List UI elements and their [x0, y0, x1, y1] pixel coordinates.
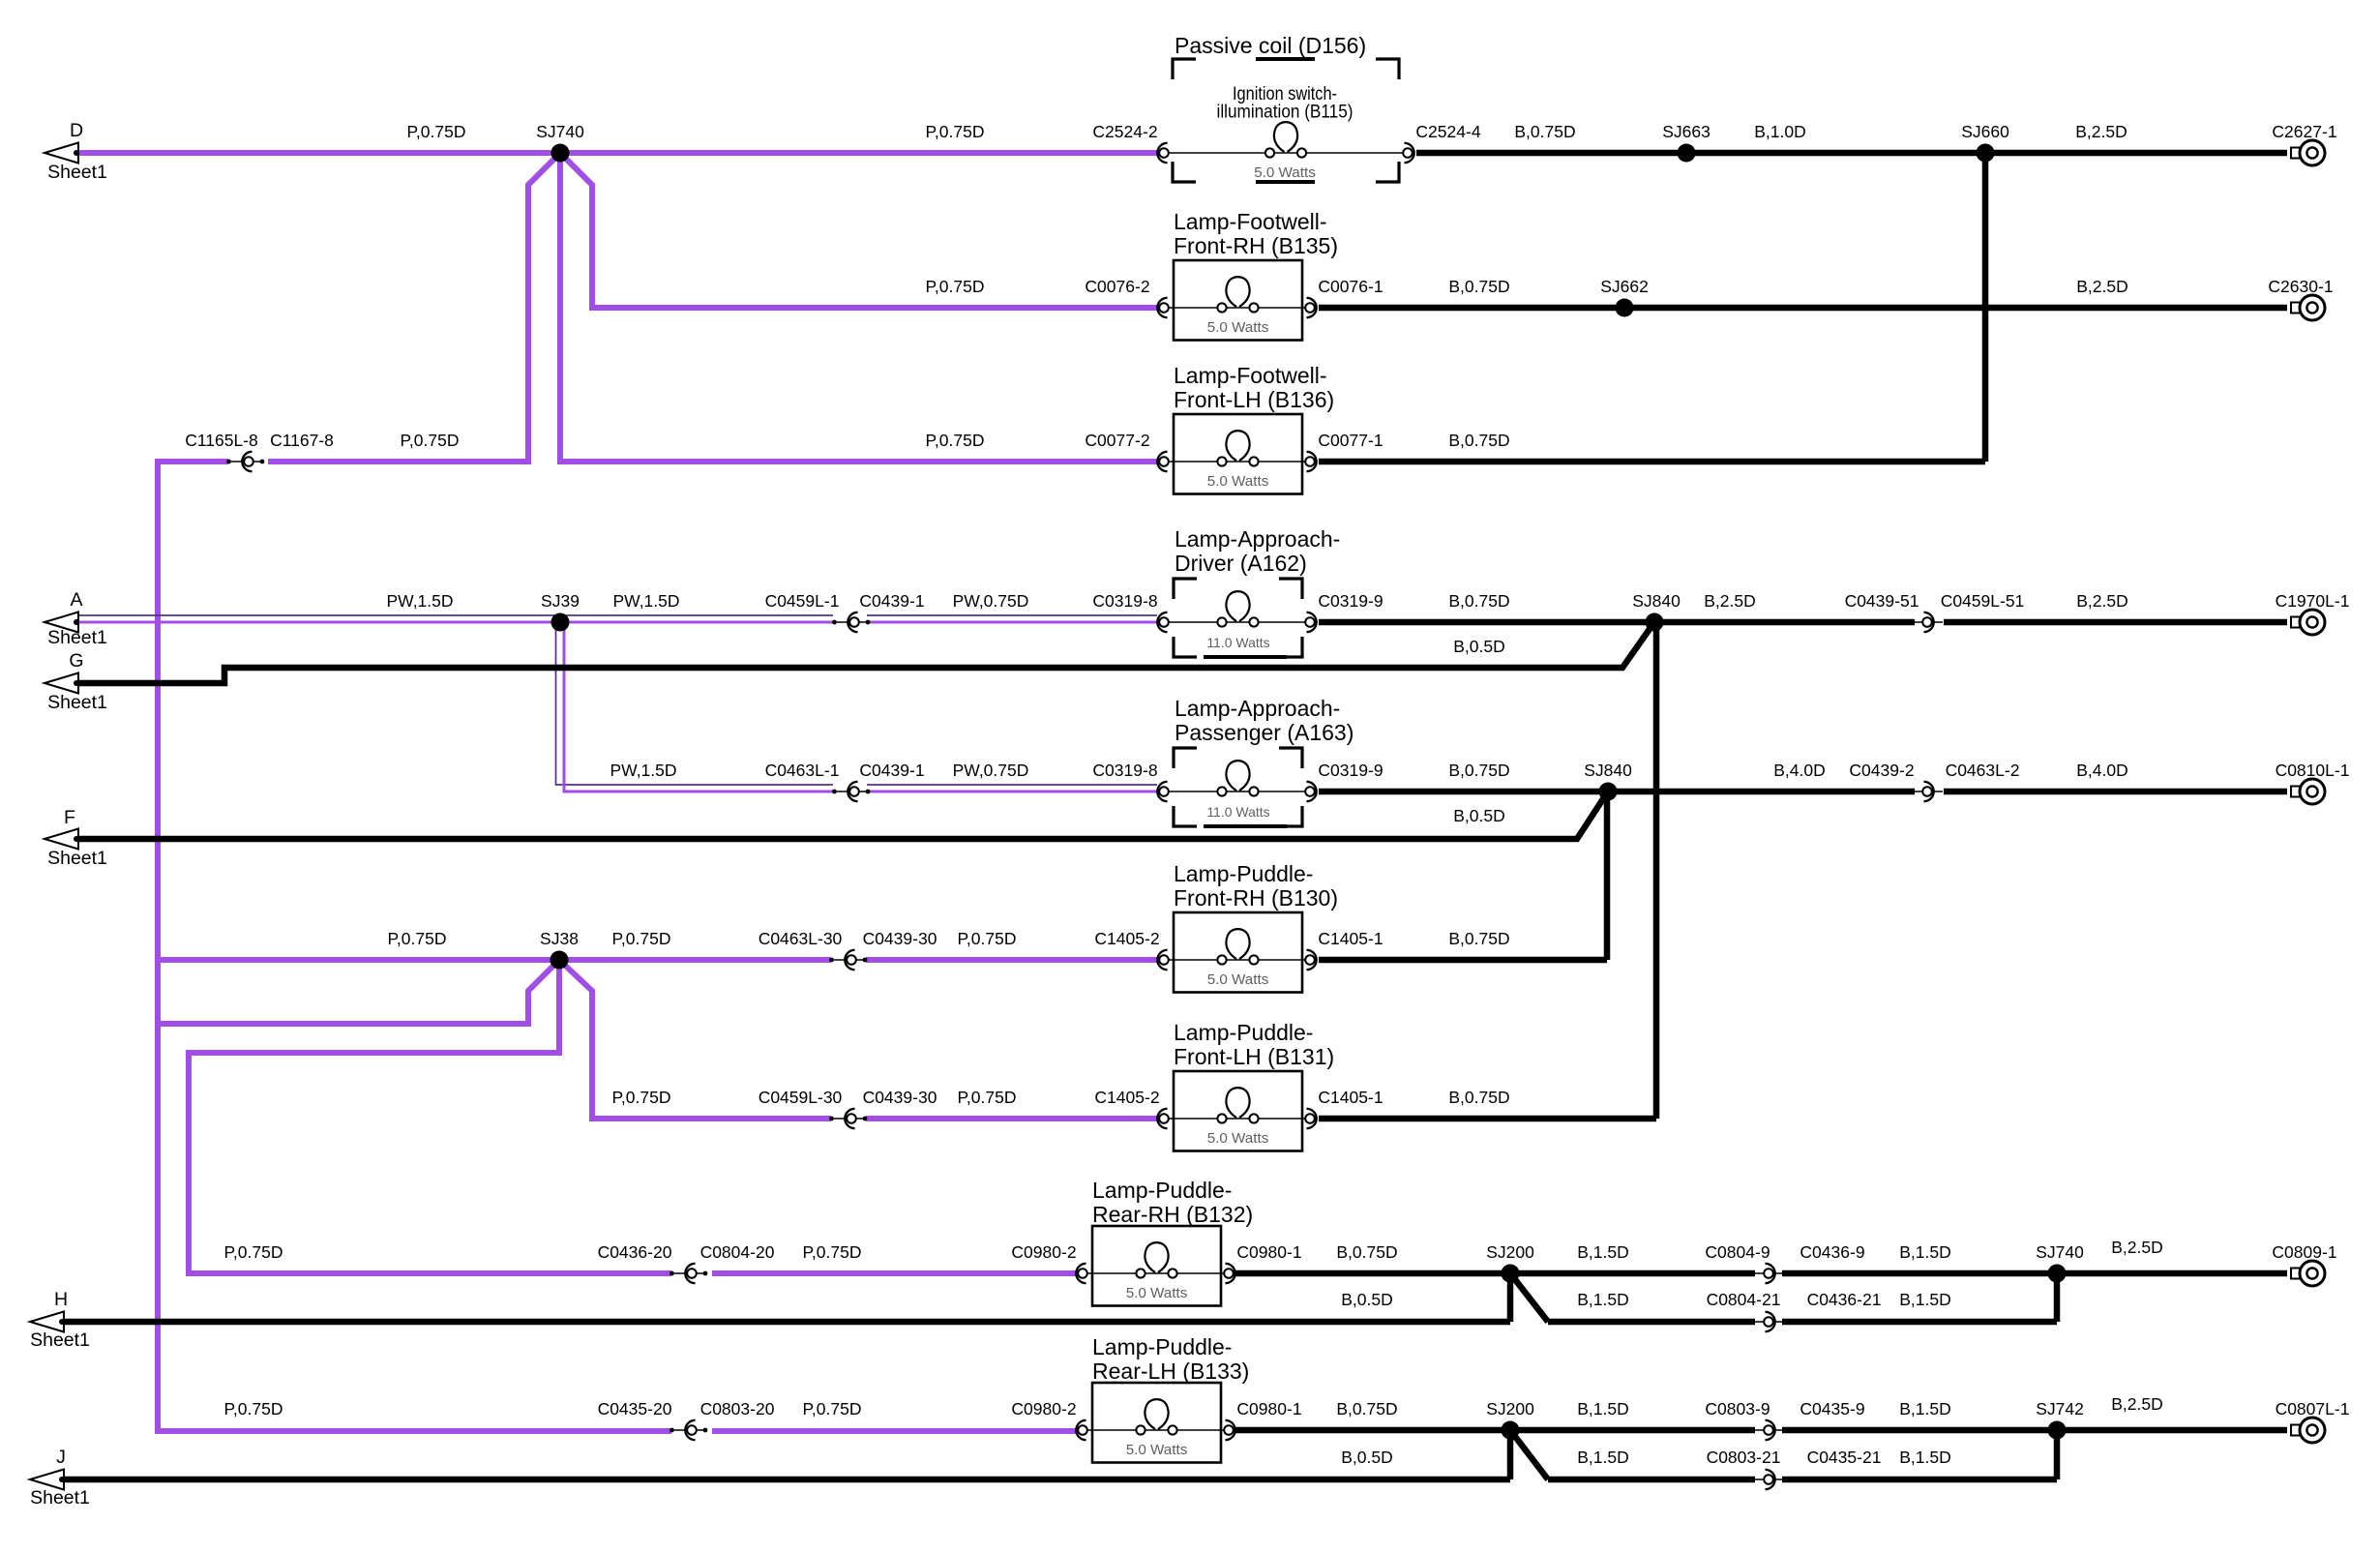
connector C0435-20 C0803-20 inline row9: [669, 1428, 674, 1433]
lamp element bulb Rear-LH (B133): [1083, 1429, 1231, 1431]
svg-text:SJ660: SJ660: [1961, 122, 2009, 141]
connector C0463L-30 C0439-30 inline row6: [829, 958, 834, 963]
connector C0436-20 C0804-20 inline row8: [669, 1271, 674, 1276]
svg-text:B,1.5D: B,1.5D: [1899, 1290, 1951, 1309]
svg-text:C2630-1: C2630-1: [2268, 277, 2333, 296]
wire row6 P,0.75D right of connector C0439-30: [866, 957, 1158, 963]
svg-text:B,2.5D: B,2.5D: [2076, 591, 2128, 611]
svg-text:C0803-9: C0803-9: [1705, 1399, 1770, 1419]
wire SJ660 vertical down to row3: [1982, 153, 1989, 462]
junction SJ660 row1: [1977, 144, 1995, 163]
connector C0804-21 C0436-21 inline row8 lower black: [1754, 1321, 1784, 1323]
svg-text:PW,0.75D: PW,0.75D: [953, 761, 1029, 780]
svg-text:H: H: [54, 1289, 68, 1310]
svg-text:C0435-21: C0435-21: [1807, 1448, 1882, 1467]
svg-text:C0459L-30: C0459L-30: [759, 1088, 843, 1107]
svg-text:P,0.75D: P,0.75D: [407, 122, 466, 141]
junction SJ39 row4: [551, 613, 570, 632]
svg-text:P,0.75D: P,0.75D: [224, 1242, 283, 1262]
svg-text:C0807L-1: C0807L-1: [2276, 1399, 2350, 1419]
ring terminal C0809-1: [2291, 1269, 2300, 1279]
svg-text:C1165L-8: C1165L-8: [185, 431, 258, 450]
wire SJ38 middle branch to row8 lamp B132: [189, 960, 671, 1273]
wire row5 B,0.75D B,4.0D from C0319-9 to connector C0439-2: [1319, 789, 1915, 795]
svg-text:5.0 Watts: 5.0 Watts: [1207, 1130, 1269, 1147]
svg-text:Rear-RH (B132): Rear-RH (B132): [1092, 1202, 1253, 1227]
svg-text:Lamp-Puddle-: Lamp-Puddle-: [1092, 1334, 1232, 1359]
wire row4 B,0.75D B,2.5D from C0319-9 to connector C0439-51: [1319, 619, 1915, 626]
component Passive coil (D156) bracket box: [1173, 59, 1196, 79]
svg-text:B,1.5D: B,1.5D: [1577, 1399, 1629, 1419]
svg-text:C2524-2: C2524-2: [1092, 122, 1157, 141]
connector C0804-9 C0436-9 inline row8 black: [1754, 1272, 1784, 1274]
svg-text:F: F: [64, 807, 75, 828]
junction SJ662 row2: [1616, 299, 1634, 317]
svg-text:C0810L-1: C0810L-1: [2276, 761, 2350, 780]
wire row7 B,0.75D from C1405-1 to SJ840 vertical: [1319, 1116, 1656, 1122]
svg-text:Front-RH (B135): Front-RH (B135): [1174, 233, 1338, 258]
svg-text:C0436-9: C0436-9: [1800, 1242, 1864, 1262]
svg-text:Sheet1: Sheet1: [47, 848, 107, 869]
svg-text:P,0.75D: P,0.75D: [612, 929, 671, 948]
svg-text:Lamp-Footwell-: Lamp-Footwell-: [1174, 363, 1327, 388]
svg-text:P,0.75D: P,0.75D: [926, 277, 985, 296]
svg-text:illumination (B115): illumination (B115): [1217, 103, 1354, 123]
svg-text:B,1.5D: B,1.5D: [1899, 1448, 1951, 1467]
svg-text:B,1.0D: B,1.0D: [1754, 122, 1806, 141]
svg-text:B,2.5D: B,2.5D: [2111, 1394, 2163, 1414]
connector C0459L-30 C0439-30 inline row7: [829, 1117, 834, 1121]
svg-text:B,0.75D: B,0.75D: [1448, 277, 1509, 296]
connector C0803-21 C0435-21 inline row9 lower black: [1754, 1478, 1784, 1480]
svg-text:Sheet1: Sheet1: [30, 1487, 90, 1508]
svg-text:C0435-20: C0435-20: [598, 1399, 672, 1419]
svg-text:B,4.0D: B,4.0D: [2076, 761, 2128, 780]
ring terminal C0810L-1: [2291, 787, 2300, 797]
svg-text:B,0.75D: B,0.75D: [1448, 591, 1509, 611]
svg-text:C1405-2: C1405-2: [1094, 1088, 1159, 1107]
connector C2524-2 lamp left edge: [1157, 143, 1167, 163]
connector C0319-8 lamp left edge: [1157, 612, 1167, 632]
svg-text:Lamp-Puddle-: Lamp-Puddle-: [1174, 861, 1313, 886]
wire H B,0.5D from sheet arrow to SJ200 vertical: [62, 1319, 1510, 1326]
connector C0980-1 lamp right edge: [1224, 1425, 1234, 1435]
lamp element bulb approach lamp: [1169, 791, 1305, 792]
svg-text:SJ740: SJ740: [2036, 1242, 2084, 1262]
svg-text:B,0.5D: B,0.5D: [1341, 1448, 1393, 1467]
connector C1405-2 lamp left edge: [1157, 1109, 1167, 1128]
connector C0980-2 lamp left edge: [1076, 1264, 1086, 1283]
svg-text:B,0.75D: B,0.75D: [1448, 929, 1509, 948]
svg-text:5.0 Watts: 5.0 Watts: [1126, 1442, 1188, 1458]
svg-text:SJ38: SJ38: [540, 929, 579, 948]
wire G B,0.5D from sheet arrow to SJ840: [78, 622, 1654, 683]
svg-text:C0439-30: C0439-30: [863, 929, 937, 948]
component Rear-RH (B132) box: [1092, 1226, 1221, 1306]
connector C1165L-8 C1167-8 inline row3: [226, 460, 231, 464]
svg-text:Lamp-Puddle-: Lamp-Puddle-: [1174, 1020, 1313, 1045]
component Rear-LH (B133) box: [1092, 1383, 1221, 1463]
svg-text:PW,1.5D: PW,1.5D: [610, 761, 676, 780]
svg-text:C0804-9: C0804-9: [1705, 1242, 1770, 1262]
sheet reference G Sheet1: [45, 673, 78, 694]
wire row9 B,1.5D B,2.5D from connector C0435-9 to ring C0807L-1: [1782, 1427, 2287, 1434]
svg-text:C1970L-1: C1970L-1: [2276, 591, 2350, 611]
connector C1405-1 lamp right edge: [1305, 1114, 1315, 1123]
wire SJ200 diagonal to lower B,1.5D run: [1510, 1273, 1548, 1322]
svg-text:Passenger (A163): Passenger (A163): [1175, 720, 1354, 745]
svg-text:C0439-1: C0439-1: [859, 591, 924, 611]
junction SJ840 row4: [1646, 613, 1664, 632]
junction SJ663 row1: [1678, 144, 1696, 163]
component Front-LH (B131) box: [1174, 1071, 1302, 1151]
svg-text:B,0.75D: B,0.75D: [1448, 1088, 1509, 1107]
svg-text:SJ662: SJ662: [1600, 277, 1649, 296]
component approach lamp bracket box: [1174, 748, 1197, 768]
junction SJ740 row1: [551, 144, 570, 163]
svg-text:Front-RH (B130): Front-RH (B130): [1174, 885, 1338, 911]
wire row8 lower B,1.5D to connector C0804-21: [1548, 1319, 1755, 1326]
svg-text:P,0.75D: P,0.75D: [612, 1088, 671, 1107]
wire row4 B,2.5D from connector C0459L-51 to ring C1970L-1: [1944, 619, 2287, 626]
svg-text:P,0.75D: P,0.75D: [401, 431, 460, 450]
svg-text:C0077-1: C0077-1: [1318, 431, 1383, 450]
svg-text:PW,1.5D: PW,1.5D: [612, 591, 679, 611]
lamp element bulb Front-RH (B130): [1164, 959, 1312, 961]
svg-text:SJ742: SJ742: [2036, 1399, 2084, 1419]
svg-text:P,0.75D: P,0.75D: [803, 1242, 862, 1262]
svg-text:PW,1.5D: PW,1.5D: [386, 591, 453, 611]
junction SJ840 row5: [1599, 783, 1618, 801]
svg-text:C1167-8: C1167-8: [270, 431, 334, 450]
connector C0077-1 lamp right edge: [1305, 457, 1315, 466]
wire SJ200 vertical to wire J: [1507, 1430, 1514, 1479]
svg-text:B,0.5D: B,0.5D: [1453, 806, 1505, 825]
svg-text:J: J: [56, 1447, 66, 1468]
wire row9 P,0.75D right of connector C0803-20: [712, 1428, 1077, 1434]
connector C1405-1 lamp right edge: [1305, 955, 1315, 965]
connector C0439-51 C0459L-51 inline row4 black: [1913, 621, 1943, 623]
svg-text:P,0.75D: P,0.75D: [388, 929, 447, 948]
svg-text:P,0.75D: P,0.75D: [958, 1088, 1017, 1107]
svg-text:C0463L-2: C0463L-2: [1946, 761, 2020, 780]
ring terminal C1970L-1: [2291, 617, 2300, 628]
svg-text:B,1.5D: B,1.5D: [1899, 1399, 1951, 1419]
svg-text:C0803-20: C0803-20: [700, 1399, 775, 1419]
svg-text:B,0.75D: B,0.75D: [1336, 1399, 1397, 1419]
lamp element bulb Front-RH (B135): [1164, 307, 1312, 309]
svg-text:C0804-20: C0804-20: [700, 1242, 775, 1262]
wire F B,0.5D from sheet arrow to SJ840: [78, 791, 1608, 839]
wire J B,0.5D from sheet arrow to SJ200 vertical: [62, 1477, 1510, 1483]
svg-text:SJ200: SJ200: [1486, 1399, 1534, 1419]
component Front-RH (B130) box: [1174, 912, 1302, 993]
wire row8 B,0.75D B,1.5D from C0980-1 to connector C0804-9: [1235, 1270, 1755, 1277]
svg-text:C0459L-1: C0459L-1: [765, 591, 840, 611]
svg-text:SJ840: SJ840: [1584, 761, 1632, 780]
wire row8 lower B,1.5D from connector C0436-21 to SJ740 vertical: [1782, 1319, 2057, 1326]
svg-text:Lamp-Approach-: Lamp-Approach-: [1175, 526, 1340, 552]
svg-text:G: G: [69, 650, 83, 672]
connector C0319-9 lamp right edge: [1305, 787, 1315, 796]
svg-text:B,0.75D: B,0.75D: [1336, 1242, 1397, 1262]
wire SJ200 vertical to wire H: [1507, 1273, 1514, 1322]
wire A PW,1.5D row4 left of connector C0459L-1: [78, 614, 833, 616]
svg-text:B,0.75D: B,0.75D: [1448, 431, 1509, 450]
svg-text:C0439-2: C0439-2: [1849, 761, 1914, 780]
svg-text:B,1.5D: B,1.5D: [1899, 1242, 1951, 1262]
connector C0319-9 lamp right edge: [1305, 617, 1315, 627]
wire D P,0.75D row1 purple: [78, 150, 1158, 156]
svg-text:B,2.5D: B,2.5D: [2075, 122, 2127, 141]
connector C0980-2 lamp left edge: [1076, 1420, 1086, 1440]
svg-text:C1405-1: C1405-1: [1318, 1088, 1383, 1107]
svg-text:C0809-1: C0809-1: [2272, 1242, 2336, 1262]
svg-text:B,1.5D: B,1.5D: [1577, 1290, 1629, 1309]
junction SJ200 row8: [1502, 1265, 1520, 1283]
svg-text:C2524-4: C2524-4: [1415, 122, 1480, 141]
svg-text:Passive coil (D156): Passive coil (D156): [1175, 33, 1366, 58]
wire SJ200 diagonal to lower B,1.5D run row9: [1510, 1430, 1548, 1479]
svg-text:C0980-2: C0980-2: [1011, 1399, 1076, 1419]
connector C2524-4 lamp right edge: [1403, 148, 1413, 158]
connector C0076-1 lamp right edge: [1305, 303, 1315, 313]
lamp element bulb Front-LH (B131): [1164, 1118, 1312, 1120]
wire row9 lower B,1.5D from connector C0435-21 to SJ742 vertical: [1782, 1477, 2057, 1483]
svg-text:C0076-2: C0076-2: [1085, 277, 1149, 296]
wire row6 P,0.75D from left vertical through SJ38: [158, 957, 831, 963]
svg-text:Front-LH (B131): Front-LH (B131): [1174, 1044, 1334, 1069]
svg-text:Rear-LH (B133): Rear-LH (B133): [1092, 1359, 1249, 1384]
wire left segment C1165L-8 to left vertical feeder: [158, 462, 671, 1431]
svg-text:C0439-30: C0439-30: [863, 1088, 937, 1107]
wire SJ840 vertical down to row7: [1653, 622, 1660, 1119]
svg-text:C0803-21: C0803-21: [1707, 1448, 1781, 1467]
svg-text:B,0.5D: B,0.5D: [1341, 1290, 1393, 1309]
svg-text:C0435-9: C0435-9: [1800, 1399, 1864, 1419]
wire SJ39 vertical branch down to row5: [556, 624, 834, 785]
connector C0319-8 lamp left edge: [1157, 782, 1167, 801]
svg-text:C0319-8: C0319-8: [1092, 761, 1157, 780]
wire row5 PW,0.75D right of connector C0439-1: [867, 784, 1157, 786]
svg-text:C0980-2: C0980-2: [1011, 1242, 1076, 1262]
svg-text:Sheet1: Sheet1: [47, 162, 107, 183]
svg-text:Sheet1: Sheet1: [30, 1329, 90, 1351]
wire SJ740 middle branch to lamp B136 row3: [560, 153, 1158, 462]
svg-text:Driver (A162): Driver (A162): [1175, 551, 1307, 576]
connector C0459L-1 C0439-1 inline row4: [832, 620, 837, 625]
svg-text:C0463L-30: C0463L-30: [759, 929, 843, 948]
wire row2 B,0.75D B,2.5D to ring C2630-1: [1319, 305, 2287, 312]
wire vertical up to SJ742 row9: [2054, 1430, 2061, 1479]
svg-text:SJ740: SJ740: [536, 122, 584, 141]
svg-text:B,1.5D: B,1.5D: [1577, 1448, 1629, 1467]
svg-text:C1405-1: C1405-1: [1318, 929, 1383, 948]
svg-text:C0439-51: C0439-51: [1845, 591, 1919, 611]
wire row6 B,0.75D from C1405-1 to SJ840 vertical: [1319, 957, 1607, 964]
svg-text:C0804-21: C0804-21: [1707, 1290, 1781, 1309]
wire SJ740 left branch to C1167-8 and down-left vertical: [268, 153, 560, 462]
svg-text:P,0.75D: P,0.75D: [926, 431, 985, 450]
svg-text:B,1.5D: B,1.5D: [1577, 1242, 1629, 1262]
wire SJ38 right branch to row7 lamp B131: [559, 960, 831, 1119]
svg-text:C0459L-51: C0459L-51: [1941, 591, 2025, 611]
svg-text:5.0 Watts: 5.0 Watts: [1207, 971, 1269, 988]
wire row3 B,0.75D from C0077-1 to SJ660 vertical: [1319, 459, 1985, 465]
svg-text:B,0.75D: B,0.75D: [1514, 122, 1575, 141]
svg-text:C0436-20: C0436-20: [598, 1242, 672, 1262]
wire SJ38 branch down-left to left feeder: [158, 960, 559, 1024]
svg-text:5.0 Watts: 5.0 Watts: [1207, 319, 1269, 336]
svg-text:C0980-1: C0980-1: [1236, 1242, 1301, 1262]
ring terminal C2627-1: [2291, 148, 2300, 159]
connector C0076-2 lamp left edge: [1157, 298, 1167, 317]
lamp element bulb Front-LH (B136): [1164, 461, 1312, 463]
wire SJ840 second vertical down to row6: [1604, 791, 1611, 960]
wire row8 B,1.5D B,2.5D from connector C0436-9 to ring C0809-1: [1782, 1270, 2287, 1277]
svg-text:B,4.0D: B,4.0D: [1773, 761, 1826, 780]
component Front-RH (B135) box: [1174, 260, 1302, 341]
connector C0439-2 C0463L-2 inline row5 black: [1913, 791, 1943, 792]
svg-text:SJ200: SJ200: [1486, 1242, 1534, 1262]
svg-text:C0076-1: C0076-1: [1318, 277, 1383, 296]
component approach lamp bracket box: [1174, 579, 1197, 599]
junction SJ38 row6: [550, 951, 569, 970]
svg-text:SJ663: SJ663: [1662, 122, 1711, 141]
connector C0980-1 lamp right edge: [1224, 1269, 1234, 1278]
svg-text:B,2.5D: B,2.5D: [1704, 591, 1756, 611]
junction SJ740 row8: [2048, 1265, 2067, 1283]
svg-text:C0980-1: C0980-1: [1236, 1399, 1301, 1419]
svg-text:A: A: [70, 589, 82, 611]
svg-text:C2627-1: C2627-1: [2272, 122, 2336, 141]
svg-text:B,0.5D: B,0.5D: [1453, 637, 1505, 656]
lamp element bulb Rear-RH (B132): [1083, 1272, 1231, 1274]
sheet reference H Sheet1: [30, 1312, 64, 1332]
svg-text:C0077-2: C0077-2: [1085, 431, 1149, 450]
svg-text:P,0.75D: P,0.75D: [958, 929, 1017, 948]
connector C0463L-1 C0439-1 inline row5: [832, 790, 837, 794]
sheet reference J Sheet1: [30, 1470, 64, 1490]
wire row9 lower B,1.5D to connector C0803-21: [1548, 1477, 1755, 1483]
svg-text:C0319-8: C0319-8: [1092, 591, 1157, 611]
svg-text:C0463L-1: C0463L-1: [765, 761, 840, 780]
connector C0077-2 lamp left edge: [1157, 452, 1167, 471]
component lamp element Ignition switch-illumination (B115) row1: [1169, 152, 1403, 154]
lamp element bulb approach lamp: [1169, 621, 1305, 623]
svg-text:P,0.75D: P,0.75D: [803, 1399, 862, 1419]
ring terminal C2630-1: [2291, 303, 2300, 314]
svg-text:B,2.5D: B,2.5D: [2111, 1238, 2163, 1257]
wire row9 B,0.75D B,1.5D from C0980-1 to connector C0803-9: [1235, 1427, 1755, 1434]
svg-text:SJ840: SJ840: [1632, 591, 1681, 611]
svg-text:D: D: [70, 120, 83, 141]
svg-text:P,0.75D: P,0.75D: [224, 1399, 283, 1419]
svg-text:Lamp-Puddle-: Lamp-Puddle-: [1092, 1178, 1232, 1203]
svg-text:C0436-21: C0436-21: [1807, 1290, 1882, 1309]
svg-text:5.0 Watts: 5.0 Watts: [1207, 473, 1269, 490]
svg-text:B,0.75D: B,0.75D: [1448, 761, 1509, 780]
junction SJ200 row9: [1502, 1421, 1520, 1440]
wire row4 PW,0.75D right of connector C0439-1: [867, 614, 1157, 616]
ring terminal C0807L-1: [2291, 1425, 2300, 1436]
svg-text:Sheet1: Sheet1: [47, 692, 107, 713]
svg-text:C0319-9: C0319-9: [1318, 591, 1383, 611]
svg-text:C0439-1: C0439-1: [859, 761, 924, 780]
svg-text:11.0 Watts: 11.0 Watts: [1206, 804, 1269, 820]
wire SJ740 right branch to lamp B135 row2: [560, 153, 1158, 308]
sheet reference D Sheet1: [45, 143, 78, 164]
wire row7 P,0.75D right of connector C0439-30: [866, 1116, 1158, 1121]
sheet reference A Sheet1: [45, 612, 78, 633]
svg-text:C0319-9: C0319-9: [1318, 761, 1383, 780]
svg-text:B,2.5D: B,2.5D: [2076, 277, 2128, 296]
wire vertical up to SJ740 row8: [2054, 1273, 2061, 1322]
svg-text:5.0 Watts: 5.0 Watts: [1126, 1285, 1188, 1301]
svg-text:Sheet1: Sheet1: [47, 627, 107, 648]
wire row8 P,0.75D right of connector C0804-20: [712, 1270, 1077, 1276]
svg-text:11.0 Watts: 11.0 Watts: [1206, 635, 1269, 650]
svg-text:Front-LH (B136): Front-LH (B136): [1174, 387, 1334, 412]
svg-text:PW,0.75D: PW,0.75D: [953, 591, 1029, 611]
svg-text:SJ39: SJ39: [541, 591, 580, 611]
wire row1 B,0.75D B,1.0D B,2.5D to ring C2627-1: [1416, 150, 2287, 157]
connector C0803-9 C0435-9 inline row9 black: [1754, 1429, 1784, 1431]
sheet reference F Sheet1: [45, 829, 78, 850]
svg-text:5.0 Watts: 5.0 Watts: [1254, 164, 1316, 181]
svg-text:Lamp-Approach-: Lamp-Approach-: [1175, 696, 1340, 721]
svg-text:P,0.75D: P,0.75D: [926, 122, 985, 141]
connector C1405-2 lamp left edge: [1157, 950, 1167, 970]
junction SJ742 row9: [2048, 1421, 2067, 1440]
component Front-LH (B136) box: [1174, 414, 1302, 494]
svg-text:Lamp-Footwell-: Lamp-Footwell-: [1174, 209, 1327, 234]
svg-text:C1405-2: C1405-2: [1094, 929, 1159, 948]
wire row5 B,4.0D from connector C0463L-2 to ring C0810L-1: [1944, 789, 2287, 795]
